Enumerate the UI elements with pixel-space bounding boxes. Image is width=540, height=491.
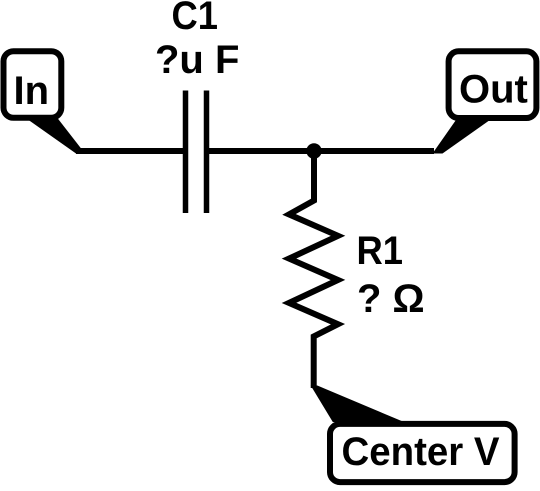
svg-text:Center V: Center V — [342, 430, 500, 474]
svg-text:R1: R1 — [357, 229, 404, 273]
svg-text:C1: C1 — [172, 0, 219, 38]
svg-text:? Ω: ? Ω — [357, 277, 425, 321]
svg-text:?u F: ?u F — [155, 38, 239, 82]
svg-text:In: In — [14, 69, 50, 113]
svg-text:Out: Out — [459, 68, 528, 112]
